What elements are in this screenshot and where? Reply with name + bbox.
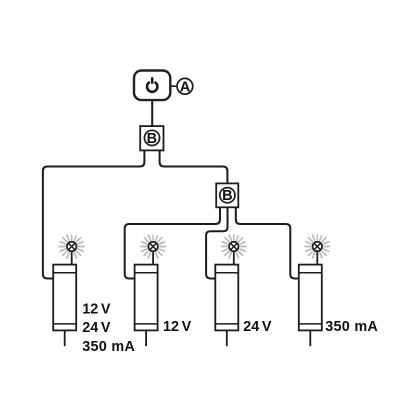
- svg-text:A: A: [180, 79, 191, 95]
- svg-text:12V: 12V: [82, 302, 111, 318]
- svg-text:24V: 24V: [82, 320, 111, 336]
- svg-text:12V: 12V: [163, 319, 192, 335]
- svg-text:24V: 24V: [243, 319, 272, 335]
- svg-text:B: B: [147, 131, 157, 147]
- svg-text:B: B: [222, 188, 232, 204]
